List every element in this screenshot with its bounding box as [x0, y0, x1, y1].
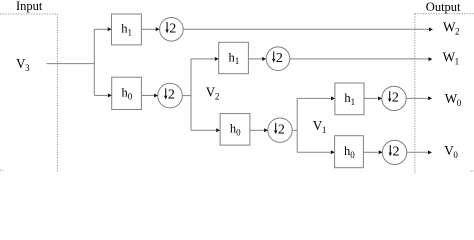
- svg-text:W0: W0: [445, 91, 462, 108]
- svg-text:h0: h0: [344, 144, 355, 160]
- svg-text:2: 2: [278, 122, 285, 137]
- svg-text:V2: V2: [206, 85, 220, 102]
- svg-text:W2: W2: [443, 19, 460, 36]
- svg-text:h0: h0: [230, 122, 241, 138]
- svg-text:2: 2: [393, 145, 400, 160]
- svg-text:V1: V1: [313, 118, 327, 135]
- svg-text:2: 2: [276, 51, 283, 66]
- svg-text:Input: Input: [16, 0, 43, 13]
- svg-text:Output: Output: [426, 0, 461, 14]
- svg-text:2: 2: [169, 21, 176, 36]
- svg-text:2: 2: [168, 88, 175, 103]
- svg-text:h0: h0: [122, 86, 133, 102]
- svg-text:2: 2: [392, 91, 399, 106]
- svg-text:W1: W1: [443, 49, 460, 66]
- svg-text:h1: h1: [121, 22, 132, 38]
- svg-text:V0: V0: [444, 143, 458, 160]
- svg-text:V3: V3: [16, 56, 30, 73]
- svg-text:h1: h1: [344, 91, 355, 107]
- svg-text:h1: h1: [229, 50, 240, 66]
